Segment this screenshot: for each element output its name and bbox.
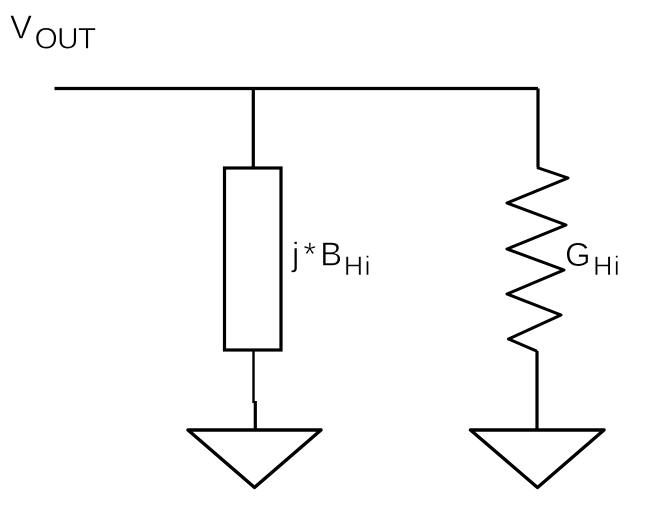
svg-text:Hi: Hi <box>593 251 621 281</box>
svg-text:j*B: j*B <box>291 236 346 273</box>
svg-text:Hi: Hi <box>344 251 372 281</box>
svg-text:OUT: OUT <box>35 22 96 55</box>
svg-text:V: V <box>10 9 32 46</box>
svg-text:G: G <box>565 236 591 273</box>
